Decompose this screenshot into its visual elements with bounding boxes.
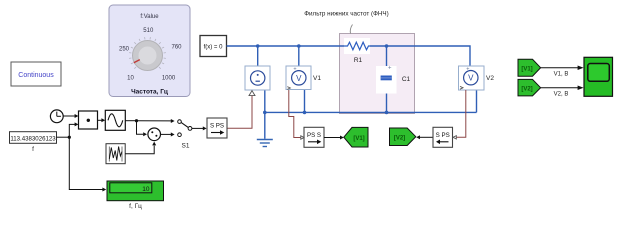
clock [50,110,63,123]
goto tag V1 [344,127,368,147]
display f Hz [107,181,164,210]
converter S PS left [207,118,227,138]
svg-text:f: f [32,146,34,153]
capacitor C1 [376,66,411,94]
PS wire V1 to PS S [289,90,301,138]
svg-text:Частота, Гц: Частота, Гц [131,89,168,96]
junction constant [68,136,71,139]
svg-text:f:Value: f:Value [140,14,159,20]
wire from V2 to scope [541,87,578,89]
wire source bottom to ground [264,90,266,139]
svg-text:S PS: S PS [210,123,224,130]
voltmeter V2 [459,66,495,90]
wire product to sine [98,119,102,121]
wire constant to junction [57,136,70,138]
wire sine to switch [125,120,136,122]
wire source top drop [257,46,259,66]
wire C1 branch top [386,46,388,75]
PS S input port [301,136,304,139]
wire top bus right segment [370,46,470,66]
wire PS S to goto V1 [324,137,340,139]
knob red needle [134,60,140,63]
svg-text:PS S: PS S [307,132,321,139]
junction top C1 [385,44,389,48]
product block [79,111,98,129]
svg-text:V: V [296,74,302,83]
svg-text:Фильтр нижних частот (ФНЧ): Фильтр нижних частот (ФНЧ) [304,11,388,18]
svg-text:[V1]: [V1] [521,66,532,72]
wire top bus left segment [227,46,477,139]
junction top source [256,44,260,48]
wire V1 top drop [298,46,300,71]
manual switch S1 [178,120,207,150]
junction bottom V1 [303,111,307,115]
svg-text:113.4383026123: 113.4383026123 [10,135,56,142]
wire junction up to product [69,124,75,137]
powergui Continuous [11,62,61,86]
svg-text:[V1]: [V1] [353,136,364,142]
constant f [10,132,57,153]
wire noise to multiply [125,146,154,154]
noise source block [106,144,125,164]
svg-text:V2, В: V2, В [554,92,569,98]
svg-text:R1: R1 [354,57,363,64]
ground [257,140,273,147]
from tag V1 right [518,59,541,76]
converter S PS right [433,127,456,147]
area annotation (filter box) [340,34,415,114]
junction bottom C1 [385,111,389,115]
from tag V2 right [518,79,541,96]
svg-text:S PS: S PS [436,132,450,139]
S PS right input port [453,136,456,139]
voltmeter V1 [286,66,321,90]
wire V2 bottom drop [471,85,477,113]
wire junction down to display [69,137,102,189]
knob block f [109,5,190,97]
wire clock to product [63,115,75,117]
junction top V1 [297,44,301,48]
svg-text:[V2]: [V2] [521,86,532,92]
svg-text:V1: V1 [313,75,321,82]
annotation leader line [350,25,352,34]
controlled voltage source [245,66,270,96]
knob outer circle [133,41,163,71]
svg-text:f(x) = 0: f(x) = 0 [204,45,224,51]
svg-text:10: 10 [142,186,150,193]
knob dial ticks [129,37,166,69]
PS wire V2 to S PS right [457,90,466,137]
wire C1 branch bottom [386,80,388,112]
svg-text:510: 510 [143,28,154,34]
source PS input port [249,91,255,96]
wire V2 top entry [470,66,472,71]
svg-text:1000: 1000 [162,76,176,82]
resistor R1 [344,38,370,64]
PS wire S PS to source [227,96,252,129]
svg-text:760: 760 [171,45,182,51]
wire bottom bus [265,111,477,113]
sine block [105,110,125,130]
svg-text:f, Гц: f, Гц [129,203,142,210]
svg-text:250: 250 [119,47,130,53]
svg-text:S1: S1 [182,143,190,150]
junction bottom source [263,111,267,115]
wire from V1 to scope [541,67,578,69]
wire V1 bottom drop [301,85,305,112]
wire sine branch to multiply [137,121,144,135]
svg-text:C1: C1 [402,76,411,83]
wire S PS right to goto V2 [420,136,433,138]
svg-text:10: 10 [127,76,134,82]
knob inner circle [139,47,157,65]
svg-text:V2: V2 [486,75,494,82]
svg-text:+: + [388,66,392,72]
wire multiply to switch [161,133,172,135]
svg-text:Continuous: Continuous [18,72,54,79]
multiply circle [148,128,161,141]
converter PS S [301,127,324,147]
svg-text:[V2]: [V2] [394,136,405,142]
svg-text:V: V [468,74,474,83]
svg-text:V1, В: V1, В [554,72,569,78]
scope [584,57,613,96]
goto tag V2 [390,128,416,146]
solver block f(x)=0 [200,36,227,57]
